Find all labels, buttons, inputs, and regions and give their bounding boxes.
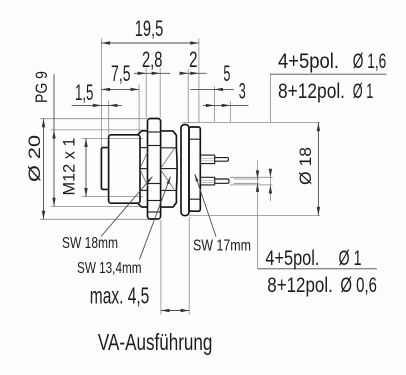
svg-text:3: 3 [239,79,246,104]
svg-text:4+5pol.: 4+5pol. [265,246,319,270]
svg-text:Ø 20: Ø 20 [25,135,44,182]
svg-text:M12 x 1: M12 x 1 [60,138,79,196]
svg-text:8+12pol.: 8+12pol. [267,273,333,297]
svg-text:5: 5 [223,61,230,86]
svg-text:SW 13,4mm: SW 13,4mm [77,260,142,277]
svg-text:Ø 1: Ø 1 [353,79,374,103]
svg-text:Ø 18: Ø 18 [296,147,315,185]
svg-text:max. 4,5: max. 4,5 [90,283,150,309]
svg-text:1,5: 1,5 [75,80,94,105]
svg-text:2,8: 2,8 [142,47,163,72]
svg-text:8+12pol.: 8+12pol. [278,79,345,103]
svg-text:4+5pol.: 4+5pol. [278,49,339,73]
svg-text:7,5: 7,5 [111,61,131,86]
svg-text:VA-Ausführung: VA-Ausführung [98,329,212,355]
svg-text:Ø 0,6: Ø 0,6 [340,273,377,297]
svg-text:19,5: 19,5 [135,16,164,41]
svg-text:PG 9: PG 9 [32,71,51,103]
svg-text:Ø 1: Ø 1 [339,246,362,270]
svg-text:SW 17mm: SW 17mm [193,238,251,255]
svg-text:Ø 1,6: Ø 1,6 [353,49,387,73]
svg-text:SW 18mm: SW 18mm [62,235,118,252]
svg-text:2: 2 [189,47,198,72]
